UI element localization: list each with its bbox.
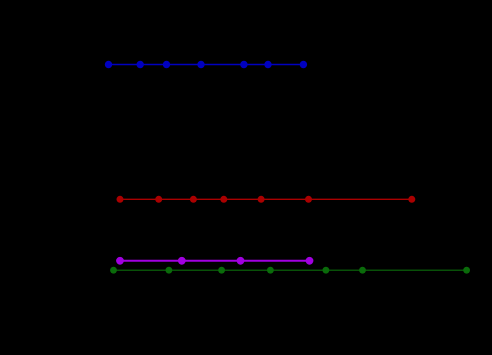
red series line bbox=[120, 198, 412, 200]
green series line bbox=[114, 269, 467, 271]
green series markers bbox=[110, 267, 470, 274]
red series markers bbox=[117, 196, 416, 203]
blue series markers bbox=[105, 61, 307, 68]
magenta series line bbox=[120, 260, 310, 262]
blue series line bbox=[109, 64, 304, 66]
magenta series markers bbox=[116, 257, 313, 265]
